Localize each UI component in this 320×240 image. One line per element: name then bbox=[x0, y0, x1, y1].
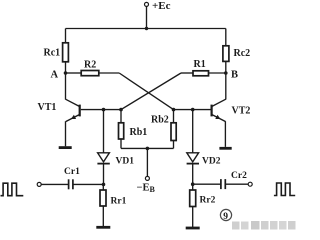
terminal output right bbox=[248, 182, 252, 186]
svg-text:Rr2: Rr2 bbox=[200, 196, 216, 206]
svg-text:Rc1: Rc1 bbox=[44, 48, 61, 59]
svg-text:R2: R2 bbox=[84, 60, 96, 71]
svg-text:A: A bbox=[51, 70, 59, 81]
node VT1 base / VD1 branch bbox=[102, 108, 106, 112]
ground Rr1 bbox=[96, 226, 110, 229]
svg-text:−EB: −EB bbox=[137, 183, 156, 195]
waveform right bbox=[274, 183, 295, 196]
wire VD1 cathode lead bbox=[103, 165, 105, 185]
node Rb2 top bbox=[172, 108, 176, 112]
wire A down to VT1 collector bbox=[65, 73, 67, 100]
svg-text:Rr1: Rr1 bbox=[111, 197, 127, 207]
wire VT1 base line bbox=[81, 109, 121, 111]
wire Rb1 bottom lead bbox=[120, 139, 122, 148]
capacitor Cr1 bbox=[69, 179, 73, 189]
svg-text:Rb2: Rb2 bbox=[151, 115, 169, 126]
terminal +Ec bbox=[145, 2, 149, 6]
wire R1 left lead bbox=[181, 72, 193, 74]
svg-text:9: 9 bbox=[223, 212, 228, 222]
svg-text:VD1: VD1 bbox=[116, 157, 135, 167]
svg-text:VT2: VT2 bbox=[232, 106, 251, 117]
wire B down to VT2 collector bbox=[225, 73, 227, 100]
resistor Rb1 bbox=[119, 123, 124, 139]
wire input to Cr1 bbox=[41, 183, 68, 185]
svg-text:Rc2: Rc2 bbox=[234, 48, 251, 59]
resistor Rc2 bbox=[223, 46, 229, 62]
wire Rb bottom bus bbox=[121, 147, 174, 149]
svg-text:Cr2: Cr2 bbox=[231, 171, 247, 181]
wire Ec lead bbox=[146, 6, 148, 28]
svg-text:VD2: VD2 bbox=[202, 157, 221, 167]
svg-text:Cr1: Cr1 bbox=[64, 167, 80, 177]
svg-text:VT1: VT1 bbox=[38, 102, 57, 113]
node VT2 base / VD2 branch bbox=[191, 108, 195, 112]
ground VT2 emitter bbox=[219, 147, 231, 150]
resistor Rr1 bbox=[100, 184, 106, 206]
wire Cr1 to junction bbox=[74, 183, 104, 185]
svg-text:B: B bbox=[231, 70, 238, 81]
wire Rb2 top lead bbox=[173, 110, 175, 123]
waveform left bbox=[1, 183, 24, 196]
resistor Rb2 bbox=[171, 123, 176, 141]
wire VD2 anode lead bbox=[192, 110, 194, 153]
wire VT1 emitter down bbox=[65, 121, 67, 146]
wire VT2 emitter down bbox=[224, 121, 226, 147]
wire VT2 base line bbox=[174, 109, 211, 111]
wire rail to Rc1 bbox=[65, 29, 67, 43]
wire coupling diagonal R2 to Rb2 top bbox=[119, 73, 173, 110]
wire Rc1 to A bbox=[65, 62, 67, 73]
watermark text bbox=[232, 221, 296, 230]
wire R2 right lead bbox=[99, 72, 119, 74]
wire VD2 cathode lead bbox=[192, 165, 194, 185]
capacitor Cr2 bbox=[221, 179, 225, 189]
svg-text:R1: R1 bbox=[194, 59, 206, 70]
node Cr1 junction bbox=[102, 183, 106, 187]
ground VT1 emitter bbox=[59, 146, 72, 149]
wire Rb1 top lead bbox=[120, 110, 122, 123]
ground Rr2 bbox=[186, 227, 200, 230]
resistor R1 bbox=[193, 71, 209, 76]
node B bbox=[224, 71, 228, 75]
resistor Rc1 bbox=[63, 43, 69, 62]
resistor Rr2 bbox=[190, 184, 196, 206]
wire Rb2 bottom lead bbox=[173, 141, 175, 149]
wire junction to Cr2 bbox=[193, 183, 221, 185]
terminal input left bbox=[37, 182, 41, 186]
wire VD1 anode lead bbox=[103, 110, 105, 153]
watermark badge bbox=[220, 209, 231, 221]
resistor R2 bbox=[81, 71, 99, 76]
node Cr2 junction bbox=[191, 182, 195, 186]
node EB tap bbox=[146, 147, 150, 151]
diode VD1 bbox=[97, 153, 109, 164]
wire A to R2 bbox=[66, 72, 82, 74]
diode VD2 bbox=[187, 153, 199, 164]
wire Rr1 to ground bbox=[102, 206, 104, 227]
wire top rail bbox=[66, 28, 226, 30]
wire EB lead bbox=[146, 148, 148, 176]
wire coupling diagonal R1 to Rb1 top bbox=[121, 73, 181, 110]
wire Cr2 to output bbox=[226, 183, 248, 185]
node rail junction bbox=[145, 27, 148, 30]
wire Rr2 to ground bbox=[192, 207, 194, 228]
transistor Q2 VT2 bbox=[212, 99, 226, 121]
node A bbox=[64, 71, 68, 75]
wire Rc2 to B bbox=[225, 62, 227, 74]
svg-text:Rb1: Rb1 bbox=[130, 127, 148, 138]
wire R1 to B bbox=[209, 72, 226, 74]
wire rail to Rc2 bbox=[225, 29, 227, 46]
transistor Q1 VT1 bbox=[66, 99, 80, 121]
terminal -EB bbox=[145, 176, 149, 180]
svg-text:+Ec: +Ec bbox=[152, 0, 171, 12]
node Rb1 top bbox=[119, 108, 123, 112]
